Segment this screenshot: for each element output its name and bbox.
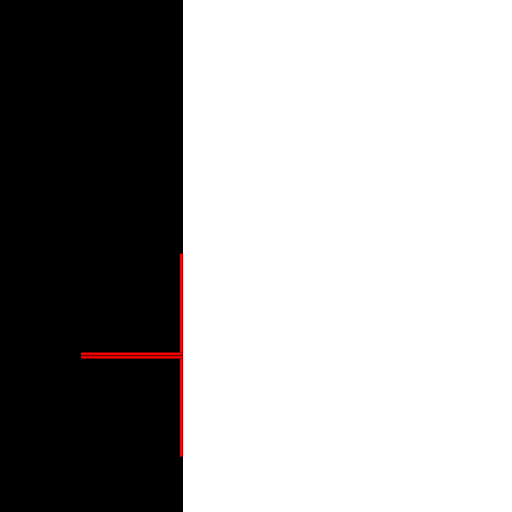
wire W1 (vertical red net segment): [180, 253, 184, 457]
wire W3 (lower horizontal red segment): [81, 356, 183, 359]
black canvas panel (background): [0, 0, 183, 512]
wire W2 (upper horizontal red segment): [81, 352, 183, 355]
